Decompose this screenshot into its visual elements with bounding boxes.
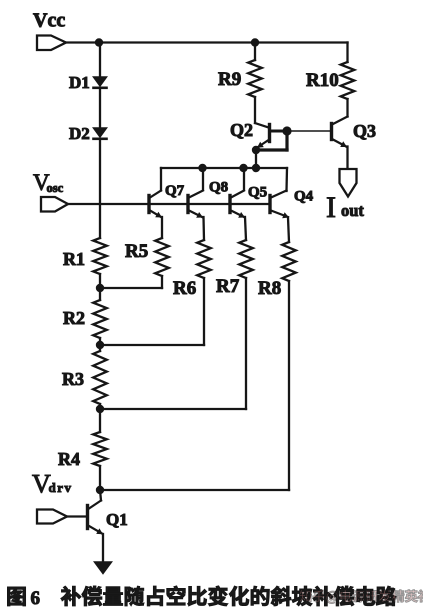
svg-text:R6: R6 [173,278,196,299]
svg-text:drv: drv [49,480,73,495]
svg-text:R7: R7 [216,276,240,297]
svg-text:Q3: Q3 [353,121,376,141]
svg-text:Q1: Q1 [106,510,128,529]
svg-text:D1: D1 [69,73,90,92]
svg-text:Vcc: Vcc [33,10,65,32]
svg-text:R4: R4 [58,449,80,469]
svg-text:R10: R10 [306,70,339,91]
svg-text:I: I [326,191,336,224]
svg-text:out: out [341,201,364,220]
svg-text:Q8: Q8 [209,180,228,196]
svg-text:R3: R3 [62,369,84,389]
svg-text:R8: R8 [258,278,281,299]
svg-text:D2: D2 [69,124,90,143]
svg-text:R1: R1 [63,249,85,269]
svg-text:osc: osc [47,181,64,195]
svg-text:Q7: Q7 [165,183,185,199]
svg-text:Q5: Q5 [248,185,267,201]
svg-text:R5: R5 [125,241,148,262]
svg-text:Q2: Q2 [230,120,253,140]
svg-text:R9: R9 [218,69,241,90]
svg-text:R2: R2 [63,308,85,328]
svg-text:Q4: Q4 [294,189,314,205]
